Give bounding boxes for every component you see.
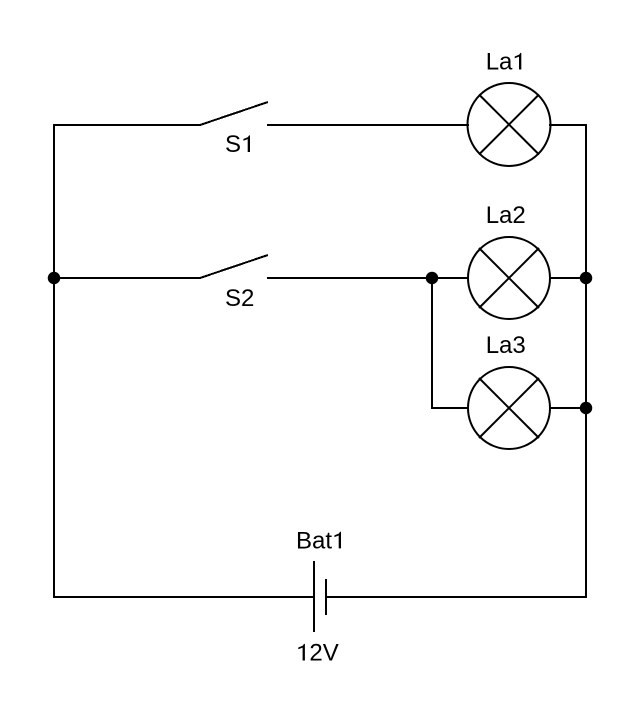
node: left rail / S2 branch junction (48, 272, 61, 285)
wire: branch from junction down and across to La3 (432, 277, 469, 408)
svg-text:2V: 2V (309, 640, 338, 667)
wire: S2 right contact through junction to La2 (267, 277, 469, 279)
label Bat1 (296, 527, 341, 554)
wire: La2 to right rail (549, 277, 586, 279)
wire: right vertical rail (585, 124, 587, 598)
lamp La1 (468, 83, 551, 166)
label S1 (225, 131, 250, 158)
wire: bottom rail left of battery (54, 596, 313, 598)
wire: La3 to right rail (549, 407, 586, 409)
node: right rail / La3 junction (580, 402, 593, 415)
wire: La1 to right rail (549, 124, 586, 126)
svg-text:Bat: Bat (296, 527, 332, 554)
node: La2 lead / La3 branch junction (426, 272, 439, 285)
wire: left vertical rail (53, 124, 55, 598)
node: right rail / La2 junction (580, 272, 593, 285)
lamp La2 (468, 237, 550, 319)
svg-text:La3: La3 (486, 332, 526, 359)
wire: S1 right contact to La1 (267, 124, 469, 126)
lamp La3 (468, 367, 550, 449)
value 12V (298, 640, 338, 667)
label La1 (486, 49, 522, 76)
switch S2 (200, 255, 268, 278)
svg-text:La: La (486, 49, 513, 76)
wire: S1 branch left lead (54, 124, 200, 126)
switch S1 (200, 102, 268, 125)
wire: bottom rail right of battery (326, 596, 586, 598)
svg-text:La2: La2 (486, 202, 526, 229)
svg-text:S: S (225, 131, 241, 158)
svg-text:S2: S2 (225, 285, 254, 312)
battery Bat1 (314, 561, 326, 632)
wire: S2 branch left lead (54, 277, 200, 279)
